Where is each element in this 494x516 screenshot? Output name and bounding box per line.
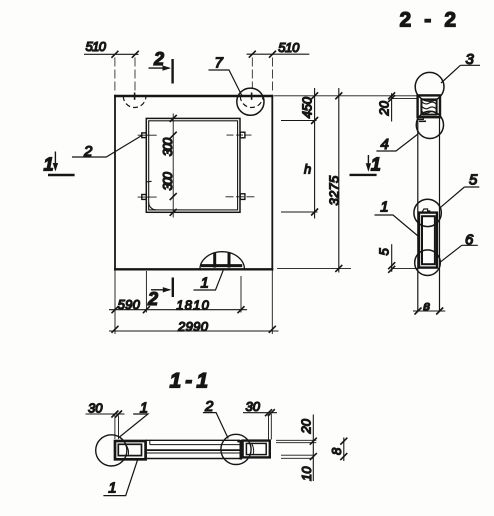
right embed top tab [237, 440, 243, 442]
left embed inner [118, 444, 141, 455]
balloon circle 7 [237, 88, 264, 115]
svg-text:1810: 1810 [176, 297, 209, 312]
svg-text:30: 30 [246, 399, 261, 414]
svg-text:3275: 3275 [327, 175, 342, 206]
slab middle bar [146, 449, 241, 451]
dim 30 left: line [86, 413, 125, 415]
top embed step below [418, 117, 424, 119]
balloon circle 6 [415, 250, 441, 276]
dim 5 line [391, 244, 393, 272]
svg-text:20: 20 [377, 100, 392, 116]
ticks bottom dims [112, 306, 276, 333]
right dims 1-1: lower pair ext [281, 455, 314, 458]
notch tick on opening left edge [146, 180, 152, 183]
svg-text:510: 510 [86, 39, 107, 54]
left embed lens curve [126, 445, 129, 456]
dim line 8 [343, 438, 345, 462]
section mark 1 left: arrow [54, 152, 56, 170]
svg-text:1: 1 [371, 155, 381, 175]
right embed anchor bar [240, 440, 243, 460]
svg-text:30: 30 [88, 401, 103, 416]
right embed outer [243, 441, 270, 458]
svg-text:1: 1 [44, 154, 54, 174]
anchor centerline left top [138, 134, 157, 136]
balloon circle 3 [415, 72, 444, 101]
dim 300 ticks [170, 115, 177, 216]
svg-text:2990: 2990 [177, 319, 209, 334]
dim 30 right: line [243, 412, 277, 414]
dim b ticks [415, 308, 444, 315]
dim 20: extensions [392, 98, 418, 100]
section mark 1 (2-2): arrow [367, 155, 369, 170]
svg-text:в: в [423, 298, 430, 313]
dim line 590/1810 [109, 309, 247, 311]
blockout vertical bar 2 [228, 253, 231, 268]
dim line 2990 [109, 330, 279, 332]
dim 510 left: line [84, 53, 139, 55]
svg-text:8: 8 [329, 447, 344, 455]
balloon circle right [221, 434, 251, 464]
blockout vertical bar 1 [213, 253, 216, 268]
top embed outer [418, 95, 440, 117]
balloon circle 4 [416, 111, 443, 138]
svg-text:2: 2 [153, 49, 164, 69]
ticks 8 [340, 438, 347, 460]
svg-text:5: 5 [469, 172, 478, 189]
loop tick right [251, 93, 253, 100]
right embed inner [246, 443, 266, 454]
ticks right dims [311, 92, 342, 272]
anchor tab right top [240, 132, 245, 138]
opening outer rect [146, 118, 240, 212]
dim 510 right extensions [252, 58, 272, 93]
dim line 450/h [314, 88, 316, 219]
anchor centerline left bottom [138, 196, 157, 198]
svg-text:20: 20 [299, 418, 314, 434]
section mark 2 bottom: arrow [151, 289, 170, 291]
dim 30 right ticks [265, 409, 275, 416]
lifting loop left (dashed arc on top edge) [123, 96, 146, 107]
bottom dims: extensions [115, 269, 272, 334]
dim 5 ticks [388, 262, 395, 273]
slab line 4 [146, 452, 241, 454]
section mark 1 (2-2): bar [350, 174, 377, 176]
balloon circle 5 [414, 199, 441, 226]
ticks 20/10 [310, 438, 317, 460]
dim 510 right: line [247, 53, 310, 55]
opening corner arc bottom-left [149, 203, 157, 210]
bottom embed outer [419, 213, 437, 268]
svg-text:450: 450 [299, 96, 314, 118]
dim 30 right extensions [269, 414, 272, 440]
slab bottom face [146, 458, 240, 460]
left embed outer [115, 441, 146, 459]
section mark 1 left: bar [48, 174, 75, 176]
svg-text:1: 1 [201, 275, 209, 292]
right embed lens curve [252, 444, 254, 455]
blockout thick bar [201, 264, 242, 267]
dim 510 left extensions [115, 58, 135, 93]
anchor tab left bottom [142, 195, 147, 200]
loop tick left [134, 93, 136, 100]
dim line 3275 [338, 88, 340, 273]
dim 20 line [391, 93, 393, 121]
bottom blockout arc [200, 252, 245, 270]
anchor centerline right bottom [226, 196, 255, 198]
dim 510 left ticks [111, 51, 138, 58]
svg-text:6: 6 [465, 232, 474, 249]
svg-text:510: 510 [278, 40, 300, 55]
svg-text:2 - 2: 2 - 2 [400, 8, 457, 31]
slab top face [146, 439, 240, 441]
right dims: extension lines [274, 95, 418, 97]
dim b line [413, 310, 445, 312]
top embed inner [421, 99, 436, 114]
anchor tab left top [142, 133, 147, 138]
bottom embed top notch [422, 209, 430, 213]
svg-text:h: h [304, 161, 311, 176]
panel outline [114, 95, 273, 98]
svg-text:1 - 1: 1 - 1 [170, 370, 209, 393]
dim 20 ticks [388, 92, 395, 102]
top embed waves [422, 102, 436, 114]
section mark 2 bottom: bar [172, 278, 174, 298]
balloon circle left [96, 435, 127, 466]
svg-text:5: 5 [377, 248, 392, 256]
svg-text:300: 300 [160, 137, 175, 156]
anchor tab right bottom [240, 194, 245, 200]
dim 5: extension [392, 267, 418, 269]
anchor centerline right top [227, 134, 252, 136]
section mark 2 top: bar [171, 59, 173, 84]
svg-text:2: 2 [147, 289, 158, 309]
dim line 20/10 [312, 415, 314, 482]
dim 30 left extensions [115, 416, 119, 440]
lifting loop right (dashed arc) [240, 96, 263, 107]
dim 30 left ticks [111, 411, 122, 418]
svg-text:7: 7 [215, 55, 224, 72]
panel edge right [439, 117, 441, 311]
svg-text:590: 590 [118, 297, 141, 312]
bottom embed inner [422, 216, 435, 264]
svg-text:1: 1 [380, 199, 388, 216]
dim 510 right ticks [249, 51, 276, 58]
svg-text:1: 1 [108, 480, 116, 497]
right dims 1-1: upper pair ext [276, 440, 316, 442]
svg-text:10: 10 [299, 466, 314, 481]
section mark 2 top: arrow [149, 67, 170, 69]
slab line 2 [150, 440, 241, 444]
dim 300 vertical line in opening [172, 114, 174, 218]
opening inner rect [149, 121, 238, 210]
panel edge left [417, 117, 419, 311]
svg-text:300: 300 [160, 171, 175, 190]
